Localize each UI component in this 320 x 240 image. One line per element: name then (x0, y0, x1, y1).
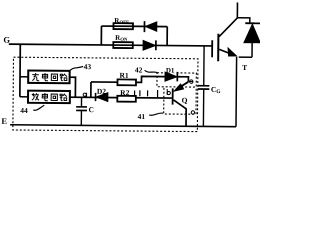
wire emitter junction link (239, 56, 252, 58)
transistor Q collector lead (173, 100, 186, 126)
wire R1 row (91, 81, 117, 83)
wire R1 branch vertical (90, 82, 92, 97)
wire parallel branch top row (101, 25, 167, 28)
wire D1 cathode to node e (178, 77, 188, 82)
transistor Q label (182, 96, 188, 105)
wire parallel branch right connector (166, 27, 168, 46)
diode D2 label (97, 87, 106, 96)
svg-text:41: 41 (138, 112, 146, 121)
wire R1 to D1 jog (136, 76, 165, 82)
svg-text:T: T (242, 63, 247, 72)
resistor R2 (117, 96, 136, 102)
label 44 with leader (20, 106, 28, 115)
diode D2 (95, 93, 97, 101)
IGBT T emitter lead with arrow (219, 49, 230, 53)
svg-text:44: 44 (20, 106, 28, 115)
node o label (191, 111, 194, 114)
capacitor CG (198, 85, 210, 87)
label T (242, 63, 247, 72)
freewheel diode triangle (244, 24, 260, 43)
label 43 with leader (84, 62, 92, 71)
wire charge circuit output to node a line (69, 77, 76, 97)
diode Don (points right) (143, 40, 155, 50)
capacitor C (80, 97, 82, 106)
block discharge circuit 放电回路 (28, 91, 70, 104)
dashed box 41 stray top dashes (135, 90, 158, 97)
freewheel diode bar (245, 22, 260, 24)
wire gate rail (9, 44, 212, 46)
diode D1 label (165, 66, 175, 74)
label 41 with leader (138, 112, 146, 121)
svg-text:R1: R1 (120, 71, 129, 80)
svg-text:42: 42 (135, 65, 143, 74)
node G label (3, 35, 10, 45)
node E label (1, 116, 7, 126)
svg-text:43: 43 (84, 62, 92, 71)
dashed box 42 (157, 73, 196, 87)
node b label (167, 89, 170, 95)
svg-text:E: E (1, 116, 7, 126)
node a label (83, 93, 86, 97)
wire base lead R2 to Q (136, 97, 172, 99)
transistor Q emitter lead with arrow (178, 82, 188, 89)
resistor ROFF (113, 23, 133, 29)
diode D1 (165, 72, 177, 81)
text discharge circuit glyphs 放电回路 (32, 93, 67, 101)
wire bottom emitter rail (10, 125, 236, 127)
transistor Q base bar (172, 88, 174, 104)
wire collector to diode top (237, 18, 250, 23)
wire emitter down right vertical (235, 57, 238, 127)
node e label (190, 80, 193, 83)
IGBT T gate bar (211, 40, 213, 57)
svg-text:C: C (89, 105, 95, 114)
IGBT T body bar (217, 34, 219, 62)
svg-text:G: G (3, 35, 10, 45)
label 42 with leader (135, 65, 143, 74)
wire parallel branch left connector (100, 26, 102, 45)
wire bus drop to charge/discharge circuits (19, 44, 21, 96)
text charge circuit glyphs 充电回路 (32, 73, 67, 81)
capacitor CG wire from gate rail (203, 46, 205, 85)
wire diode bottom drop (251, 43, 253, 58)
diode Doff (points left) (143, 21, 145, 32)
svg-text:Q: Q (182, 96, 188, 105)
wire main middle row (69, 96, 117, 98)
block charge circuit 充电回路 (28, 71, 70, 84)
wire stub to charge circuit (20, 76, 28, 78)
resistor RON (113, 42, 133, 48)
resistor R1 (117, 79, 136, 85)
IGBT T collector lead (219, 2, 237, 36)
svg-text:R2: R2 (120, 88, 129, 97)
wire stub to discharge circuit (20, 96, 28, 98)
dashed box 41 (164, 88, 197, 114)
dashed box E (13, 57, 198, 131)
